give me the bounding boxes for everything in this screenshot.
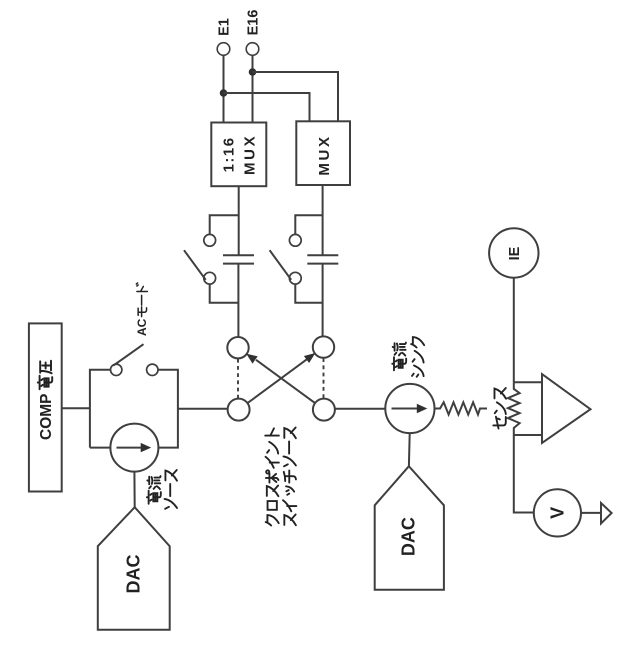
- wire IE down: [513, 278, 515, 383]
- crosspoint node top-left: [227, 337, 248, 358]
- wire node to current sink: [335, 408, 385, 410]
- svg-text:IE: IE: [507, 246, 523, 260]
- wire E1 branch to MUX: [224, 93, 310, 122]
- wire E16 down to 1:16 MUX: [252, 55, 254, 121]
- current sink I2: [385, 384, 434, 433]
- output terminal arrow: [601, 503, 612, 524]
- block 1:16 MUX: [211, 123, 266, 187]
- AC switch blade: [113, 344, 143, 365]
- DAC1 pentagon: [98, 507, 170, 630]
- block MUX: [296, 121, 350, 185]
- wire I2 to DAC2: [408, 433, 411, 466]
- svg-text:MUX: MUX: [241, 134, 258, 175]
- terminal E16: [246, 43, 259, 56]
- label 1:16 MUX: [221, 134, 259, 175]
- svg-text:DAC: DAC: [124, 555, 144, 594]
- AC block bottom-left edge: [90, 447, 111, 449]
- switch S1 blade: [184, 250, 206, 280]
- switch S2 blade: [270, 250, 292, 280]
- label sense: [493, 388, 506, 429]
- wire sense bottom: [514, 434, 542, 436]
- crosspoint node top-right: [313, 336, 334, 357]
- crosspoint node bottom-left: [228, 399, 250, 421]
- dashed link right: [323, 358, 325, 398]
- wire 1:16 MUX down: [238, 186, 240, 255]
- svg-text:AC: AC: [135, 318, 149, 336]
- resistor R1: [435, 402, 488, 414]
- label current sink: [392, 337, 424, 377]
- capacitor C1: [223, 255, 254, 263]
- junction dot on E16 line: [249, 68, 257, 76]
- label current source: [147, 470, 177, 509]
- label COMP voltage: [38, 361, 55, 440]
- switch S2 lower stem: [295, 284, 322, 303]
- voltmeter V: [534, 489, 581, 536]
- terminal E1: [217, 43, 230, 56]
- wire V to output: [581, 512, 601, 514]
- wire sense top: [514, 381, 542, 383]
- svg-text:V: V: [547, 507, 567, 519]
- terminal IE: [489, 228, 538, 277]
- capacitor C2: [307, 255, 338, 263]
- dashed link left: [237, 359, 239, 399]
- svg-text:COMP: COMP: [38, 394, 55, 441]
- svg-text:E1: E1: [217, 18, 233, 36]
- wire E16 branch to MUX: [253, 72, 339, 122]
- wire MUX down: [322, 185, 324, 255]
- crosspoint node bottom-right: [313, 399, 335, 421]
- AC switch contact left: [111, 364, 122, 375]
- AC block left and top-left edge: [90, 370, 111, 448]
- svg-text:MUX: MUX: [316, 134, 333, 175]
- current source I1: [110, 424, 158, 472]
- AC block top-right and right edge: [158, 370, 178, 448]
- wire COMP to AC block: [62, 407, 90, 409]
- label crosspoint switch source: [265, 427, 296, 525]
- switch S1 branch: [210, 215, 239, 234]
- switch S1 lower stem: [210, 284, 239, 303]
- wire block to crosspoint: [178, 408, 228, 410]
- svg-text:E16: E16: [246, 10, 262, 36]
- junction dot on E1 line: [220, 89, 228, 97]
- svg-text:DAC: DAC: [399, 517, 419, 556]
- arrow BL to TR: [248, 359, 308, 403]
- svg-text:1:16: 1:16: [221, 136, 238, 172]
- DAC2 pentagon: [375, 466, 444, 590]
- wire I1 to DAC1: [133, 472, 135, 508]
- switch S1 contact bottom: [204, 272, 216, 284]
- box COMP voltage: [29, 323, 62, 491]
- resistor sense: [508, 382, 520, 435]
- label AC mode: [135, 283, 149, 336]
- AC switch contact right: [147, 364, 158, 375]
- arrow BR to TL: [256, 360, 315, 403]
- wire C2 to node: [322, 264, 324, 337]
- switch S1 contact top: [204, 234, 216, 246]
- switch S2 contact bottom: [289, 272, 301, 284]
- switch S2 contact top: [289, 234, 301, 246]
- wire C1 to node: [237, 264, 239, 337]
- op-amp A1: [542, 374, 591, 443]
- wire E1 down to 1:16 MUX: [223, 55, 225, 122]
- switch S2 branch: [295, 215, 322, 234]
- wire to voltmeter: [514, 435, 534, 513]
